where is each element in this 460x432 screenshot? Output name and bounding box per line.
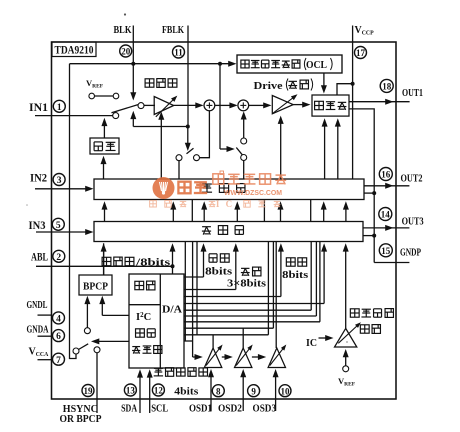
wire VREF contacts [95, 95, 114, 97]
latch divider [129, 304, 160, 306]
wire GNDL stub [38, 314, 53, 316]
arrow drive feed from green channel [280, 123, 282, 179]
label 截止 [286, 258, 295, 266]
svg-text:4: 4 [56, 315, 61, 325]
wire B switch drop to green channel [243, 161, 245, 180]
summer 2 (+) [238, 100, 249, 111]
svg-text:I C: I C [216, 199, 234, 209]
wire blue channel drop x=311.2 [310, 242, 312, 311]
wire BLK vertical [132, 26, 134, 64]
pin 13 circle [124, 384, 136, 396]
wire DA output y=341.0 [184, 340, 193, 342]
node VCCP junction [351, 82, 355, 86]
label 对比度/8bits [102, 257, 111, 265]
arrow OSD3 into T3 [275, 376, 277, 399]
wire BLK horizontal rail [70, 63, 234, 65]
node rail-green junction [372, 191, 376, 195]
wire DA output y=334.8 [184, 334, 268, 336]
node OCL feed junction [218, 62, 222, 66]
wire DA output y=321.8 [184, 321, 320, 323]
svg-text:OUT1: OUT1 [402, 87, 423, 99]
arrow SCL into I2C box [149, 377, 151, 413]
arrow T2 to T3 [252, 356, 259, 358]
arrow green channel to clamp [103, 163, 105, 179]
arrow contrast feed from green channel [160, 119, 162, 179]
wire OSD contrast drop T1-in [192, 242, 194, 358]
svg-text:OUT2: OUT2 [401, 172, 423, 184]
svg-text:6: 6 [56, 332, 61, 342]
svg-text:ABL: ABL [31, 252, 48, 264]
svg-text:3×8bits: 3×8bits [227, 279, 266, 290]
B blank switch contact top [241, 138, 247, 144]
pin 18 circle [380, 79, 393, 92]
IN1 clamp switch contact B [138, 103, 144, 109]
wire output stage right stub to rail [349, 109, 374, 263]
scan speck 3 [26, 204, 28, 206]
pin 2 circle [53, 250, 65, 262]
part label box TDA9210 [52, 42, 96, 57]
arrow inter-channel riser x=104.5 [104, 209, 106, 222]
svg-text:14: 14 [381, 210, 391, 220]
scan speck 2 [346, 341, 348, 343]
arrow FBLK branch up to switch [132, 118, 134, 126]
scan speck 1 [124, 13, 126, 15]
wire OSD3 stub [275, 399, 277, 411]
arrow summer1 to summer2 [215, 104, 231, 106]
wire G switch drop to green channel [178, 161, 180, 179]
pin 1 circle [53, 100, 65, 112]
pin 16 circle [379, 168, 392, 181]
svg-text:IN1: IN1 [29, 102, 48, 114]
arrow VREF into triangle [345, 356, 347, 366]
label 总线 [136, 329, 145, 337]
wire blue channel drop x=197 [196, 242, 198, 335]
arrow inter-channel riser x=237.3 [236, 209, 238, 222]
label 译码器 [132, 346, 140, 348]
svg-text:SDA: SDA [121, 404, 137, 415]
wire OUT3 [364, 227, 410, 229]
pin 11 circle [173, 46, 185, 58]
svg-text:BLK: BLK [114, 25, 133, 36]
OSD attenuator T1 [204, 348, 221, 368]
pin 17 circle [355, 47, 367, 59]
svg-text:8bits: 8bits [205, 267, 232, 278]
arrow inter-channel riser x=345.9 [345, 209, 347, 222]
svg-text:16: 16 [381, 170, 391, 180]
pin 3 circle [53, 174, 65, 186]
svg-text:/8bits: /8bits [135, 258, 170, 269]
arrow contrast out to summer 1 [174, 104, 197, 106]
arrow contrast DA riser into blue channel [172, 251, 174, 267]
svg-text:SCL: SCL [151, 404, 168, 415]
wire HSYNC input [96, 353, 98, 413]
HSYNC switch contact B [94, 347, 100, 353]
IN1 clamp switch contact A [113, 113, 119, 119]
arrow OSD1 into T1 [210, 376, 212, 399]
arrow inter-channel riser x=173.3 [172, 209, 174, 222]
arrow I2C control to switch [98, 340, 129, 342]
watermark DZSC logo and text [150, 171, 287, 209]
G blank switch contact right [194, 155, 200, 161]
arrow summer2 to drive [249, 104, 265, 106]
output stage box 输出级 [312, 95, 349, 116]
wire GNDP [374, 262, 409, 264]
IN1 clamp switch arm [112, 105, 139, 113]
pin 20 circle [120, 45, 132, 57]
OSD attenuator T3 [268, 348, 285, 368]
drive gain arrow [273, 98, 294, 114]
svg-text:Drive: Drive [254, 80, 283, 92]
label 电平 [360, 325, 369, 333]
arrow BPCP riser into blue channel [103, 251, 105, 275]
wire BLK left drop [70, 64, 77, 359]
label 激励 [241, 267, 249, 269]
wire DA output y=289.5 [184, 289, 236, 291]
wire blue lower stub [364, 235, 375, 237]
pin 6 circle [53, 330, 65, 342]
svg-text:1: 1 [57, 103, 62, 113]
VREF switch contact left [89, 93, 95, 99]
svg-text:19: 19 [84, 386, 94, 396]
pin 4 circle [53, 312, 65, 324]
drive amp triangle [272, 96, 293, 114]
IC outer frame [52, 42, 397, 399]
G blank switch contact left [176, 155, 182, 161]
pin 14 circle [379, 208, 392, 221]
wire IN1 input [35, 115, 113, 117]
BPCP box [79, 275, 112, 295]
svg-text:IC: IC [306, 337, 317, 349]
svg-text:WWW.DZSC.COM: WWW.DZSC.COM [224, 188, 282, 197]
arrow green feedback 2 to output stage [337, 126, 339, 179]
svg-text:5: 5 [56, 221, 61, 231]
svg-text:IN2: IN2 [30, 173, 47, 185]
wire switch to contrast amp [144, 104, 155, 106]
node FBLK junction [186, 125, 190, 129]
svg-text:20: 20 [121, 46, 131, 56]
VREF contact circle [343, 366, 349, 372]
arrow OCL to output stage [323, 73, 325, 86]
svg-text:7: 7 [56, 356, 61, 366]
wire IN2 input arrow [35, 188, 86, 190]
pin 19 circle [82, 385, 94, 397]
arrow inter-channel riser x=204.2 [203, 209, 205, 222]
wire VCCP to output stage [337, 84, 353, 95]
wire blue channel drop x=276.2 [275, 242, 277, 322]
pin 9 circle [248, 385, 260, 397]
wire OUT1 [349, 101, 410, 103]
wire summer1 bottom to switch [200, 111, 210, 158]
svg-text:10: 10 [281, 386, 291, 396]
wire green lower stub [364, 192, 375, 194]
DA column divider [159, 274, 161, 368]
arrow FBLK down to G switch [187, 127, 189, 144]
wire GNDA stub [38, 335, 53, 337]
wire BPCP top riser [103, 243, 105, 275]
arrow OSD2 into T2 [242, 376, 244, 399]
HSYNC switch contact A [84, 328, 90, 334]
svg-text:4bits: 4bits [174, 386, 198, 397]
svg-text:OCL: OCL [306, 60, 327, 71]
arrow OCL timing to B switch [220, 148, 228, 150]
svg-text:15: 15 [381, 246, 391, 256]
svg-text:BPCP: BPCP [83, 282, 108, 293]
svg-text:12: 12 [154, 386, 164, 396]
label 亮度 [208, 254, 210, 262]
svg-text:13: 13 [126, 386, 136, 396]
wire FBLK clamp branch [133, 126, 188, 128]
arrow into OCL box [228, 61, 236, 67]
blue channel box 蓝通道 [94, 222, 363, 242]
wire T3 apex feed [275, 322, 277, 348]
wire DA output y=277.0 [184, 276, 204, 278]
pin 8 circle [212, 385, 224, 397]
latch-I2C-DA box [129, 274, 184, 368]
label 绿通道 [202, 183, 212, 185]
svg-text:9: 9 [251, 386, 256, 396]
OSD attenuator T2 [235, 348, 252, 368]
svg-text:OR BPCP: OR BPCP [60, 414, 103, 425]
contact circle at BPCP switch [73, 348, 79, 354]
wire blue channel drop x=268.4 [267, 242, 269, 335]
svg-text:2: 2 [56, 253, 61, 263]
label 蓝通道 [202, 226, 211, 228]
arrow OSD signal into T1 [193, 356, 196, 358]
arrow T1 to T2 [222, 356, 226, 358]
arrow DA riser into blue channel x=203.5 [203, 251, 205, 277]
svg-text:GNDP: GNDP [400, 247, 421, 259]
wire OCL timing drop [219, 64, 221, 149]
svg-text:GNDL: GNDL [27, 300, 48, 311]
HSYNC switch arm [79, 344, 89, 350]
arrow DA riser into blue channel x=324.1 [323, 251, 325, 304]
label 锁存 [135, 281, 144, 289]
arrow drive out to output stage [293, 104, 303, 106]
svg-text:D/A: D/A [162, 305, 182, 316]
svg-text:11: 11 [174, 47, 183, 57]
arrow BLK clamp pulse down [132, 64, 134, 93]
svg-text:OSD3: OSD3 [253, 403, 277, 414]
arrow switch to BPCP [86, 303, 88, 328]
arrow inter-channel riser x=323.7 [323, 209, 325, 222]
svg-text:GNDA: GNDA [27, 324, 49, 335]
wire blue channel drop x=185.3 [184, 242, 186, 342]
label 对比度 [145, 79, 154, 87]
clamp box 钳位 [90, 138, 119, 154]
svg-text:17: 17 [356, 48, 366, 58]
wire inter-channel pass x=192.3 [191, 200, 193, 222]
wire blue channel drop x=316.4 [315, 242, 317, 317]
wire DA output y=328.2 [184, 327, 273, 329]
wire blue channel drop x=319.9 [319, 242, 321, 322]
arrow IC into triangle [319, 337, 327, 339]
VREF switch contact right [113, 93, 119, 99]
label 屏显对比度 [154, 367, 163, 369]
wire VCCP vertical [352, 26, 354, 180]
wire DA output y=316.0 [184, 315, 316, 317]
wire inter-channel pass x=310.7 [310, 200, 312, 222]
label 输出直流 [350, 309, 359, 317]
wire FBLK vertical [187, 26, 189, 127]
pin 5 circle [52, 218, 64, 230]
G blank switch arm [187, 148, 194, 154]
svg-text:OUT3: OUT3 [402, 216, 424, 228]
wire T1 apex feed [212, 335, 214, 348]
B blank switch contact bottom [241, 155, 247, 161]
wire OSD1 stub [210, 399, 212, 411]
DC level gain arrow [338, 326, 357, 344]
node ABL/contrast junction [171, 264, 175, 268]
arrow I2C to BPCP [102, 314, 129, 316]
contrast amp triangle [154, 97, 174, 115]
pin 12 circle [152, 384, 164, 396]
pin 10 circle [279, 385, 291, 397]
svg-text:8: 8 [216, 386, 221, 396]
svg-text:8bits: 8bits [282, 270, 308, 281]
wire blue channel drop x=273.4 [272, 242, 274, 329]
wire contrast DA drop to DA box [172, 266, 174, 274]
svg-text:18: 18 [382, 82, 392, 92]
node rail-blue junction [372, 234, 376, 238]
output DC level triangle [335, 328, 357, 347]
arrow clamp to IN1 wire [103, 125, 105, 138]
green channel box 绿通道 [94, 179, 364, 200]
arrow inter-channel riser x=280.5 [280, 209, 282, 222]
svg-text:FBLK: FBLK [162, 25, 185, 36]
wire ABL input [36, 265, 173, 267]
svg-text:IN3: IN3 [29, 220, 46, 232]
contrast gain arrow [156, 99, 174, 116]
wire DA output y=310.2 [184, 309, 311, 311]
wire OUT2 [364, 185, 410, 187]
wire T2 apex feed [242, 328, 244, 348]
svg-text:3: 3 [57, 176, 62, 186]
summer 1 (+) [204, 100, 215, 111]
arrow summer2 feed [243, 119, 245, 139]
arrow DA riser into blue channel x=280.9 [280, 251, 282, 297]
svg-text:TDA9210: TDA9210 [55, 45, 94, 57]
svg-text:OSD2: OSD2 [218, 403, 242, 414]
arrow green feedback 1 to output stage [324, 126, 326, 179]
wire IC level feed / riser [345, 251, 347, 329]
node BLK junction [131, 62, 135, 66]
wire VCCA stub [38, 359, 53, 361]
svg-text:I2C: I2C [136, 311, 151, 323]
wire DA output y=296.5 [184, 296, 281, 298]
pin 7 circle [53, 353, 65, 365]
wire inter-channel pass x=264.4 [263, 200, 265, 222]
wire IN3 input arrow [36, 231, 86, 233]
arrow SDA into I2C box [139, 377, 141, 413]
OCL box 输出钳位脉冲(OCL) [237, 55, 342, 73]
B blank switch arm [236, 148, 242, 155]
pin 15 circle [379, 244, 392, 257]
wire DA output y=303.5 [184, 303, 324, 305]
wire OSD2 stub [242, 399, 244, 411]
arrow DA riser into blue channel x=235.8 [235, 251, 237, 290]
svg-text:OSD1: OSD1 [189, 403, 212, 414]
